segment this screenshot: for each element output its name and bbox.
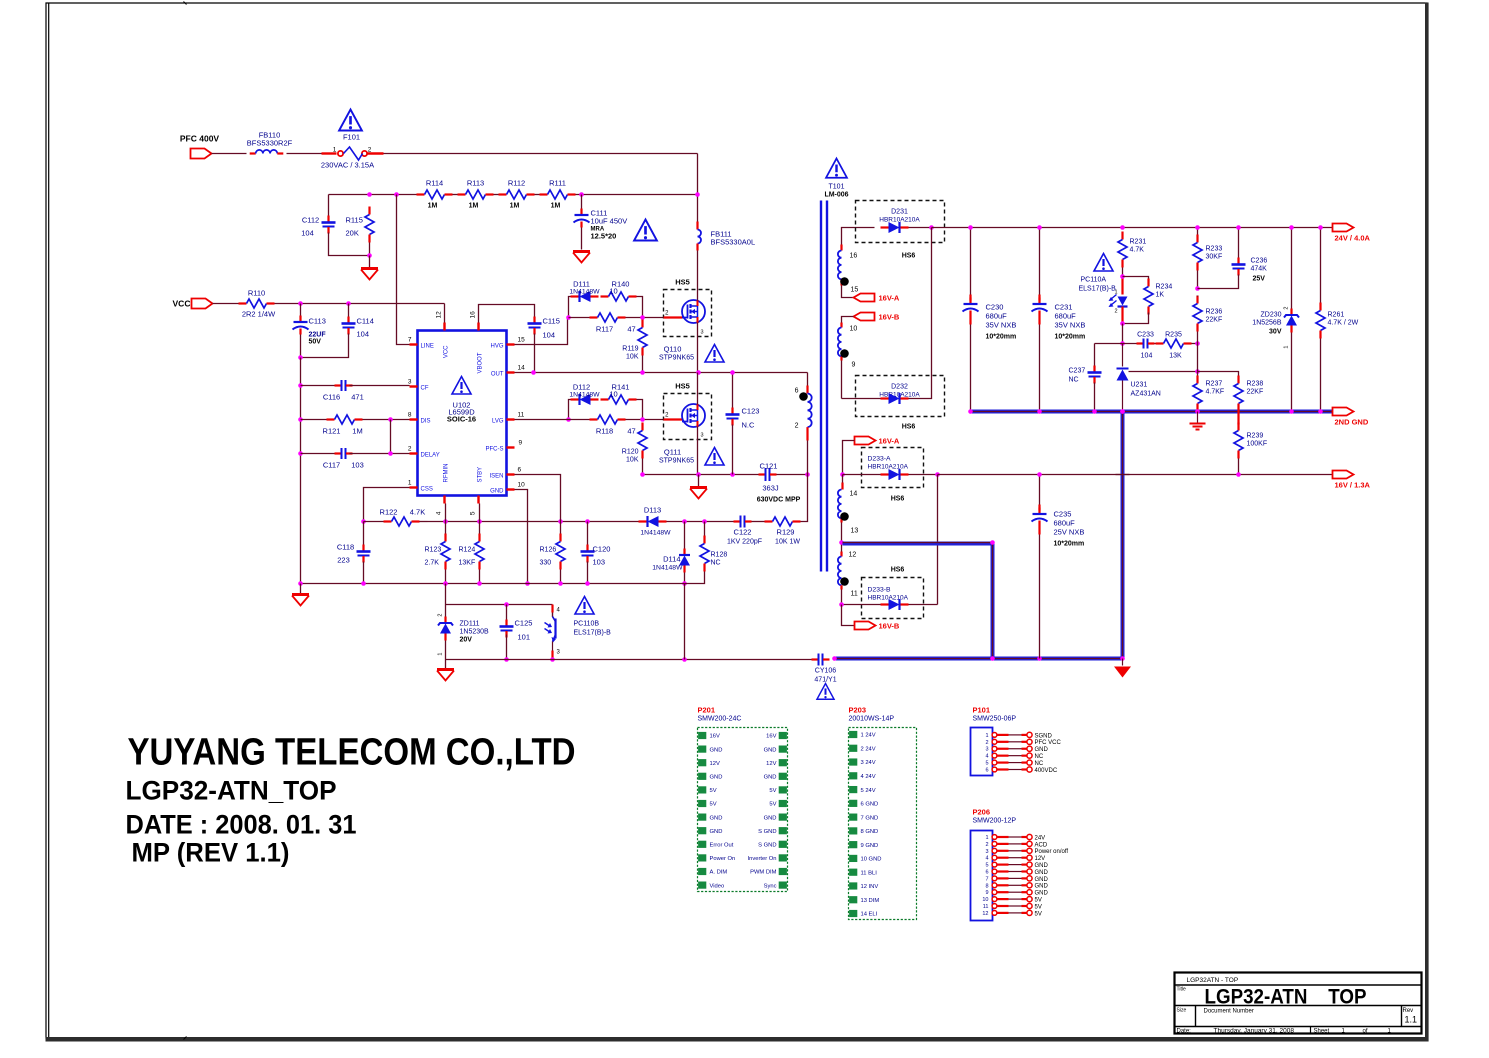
svg-text:10 GND: 10 GND xyxy=(861,857,882,863)
ground at bus riser xyxy=(1114,659,1131,678)
svg-text:7: 7 xyxy=(408,337,412,344)
svg-text:10: 10 xyxy=(850,326,858,333)
diode D233-B HBR10A210A xyxy=(842,578,938,619)
svg-text:D232: D232 xyxy=(891,384,908,391)
wire compensation row xyxy=(1095,343,1139,345)
svg-text:C121: C121 xyxy=(760,462,778,471)
junction R118 left xyxy=(566,417,571,422)
resistor R239 100KF xyxy=(1234,412,1267,475)
svg-text:1: 1 xyxy=(408,480,412,487)
svg-text:HS6: HS6 xyxy=(891,496,905,503)
junction winding11/16V-B xyxy=(839,602,844,607)
connector P203 20010WS-14P xyxy=(849,706,917,920)
svg-text:25V: 25V xyxy=(1253,276,1266,283)
resistor R261 4.7K/2W xyxy=(1316,228,1359,412)
wire GND pin10 down xyxy=(515,490,528,584)
junction C113/C114 bottom xyxy=(298,355,303,360)
junction bus corner xyxy=(990,540,995,545)
svg-text:C113: C113 xyxy=(309,317,326,326)
svg-text:13KF: 13KF xyxy=(459,560,476,567)
ground below ZD111 xyxy=(437,660,454,681)
svg-text:PC110B: PC110B xyxy=(574,621,600,628)
svg-text:C231: C231 xyxy=(1055,303,1073,312)
svg-text:3 24V: 3 24V xyxy=(861,760,876,766)
connector P101 SMW250-06P xyxy=(971,706,1062,776)
resistor R124 13KF xyxy=(459,522,485,584)
svg-text:P201: P201 xyxy=(698,706,716,715)
svg-text:YUYANG TELECOM CO.,LTD: YUYANG TELECOM CO.,LTD xyxy=(128,732,576,774)
capacitor C118 223 xyxy=(337,522,371,584)
junction snubber rail / HV line xyxy=(695,192,700,197)
optocoupler PC110A LED xyxy=(1079,277,1128,324)
svg-text:4: 4 xyxy=(985,754,988,760)
capacitor C236 474K 25V xyxy=(1198,228,1268,289)
svg-text:15: 15 xyxy=(518,337,526,344)
svg-text:474K: 474K xyxy=(1251,266,1268,273)
svg-text:SGND: SGND xyxy=(1035,733,1053,739)
junction row pin4 xyxy=(443,519,448,524)
svg-text:BFS5330R2F: BFS5330R2F xyxy=(247,139,293,148)
svg-text:11 BLI: 11 BLI xyxy=(861,870,878,876)
svg-text:D113: D113 xyxy=(644,506,661,515)
svg-text:S GND: S GND xyxy=(758,843,776,849)
svg-text:12 INV: 12 INV xyxy=(861,884,879,890)
IC U102 L6599D SOIC-16 xyxy=(408,311,525,515)
svg-text:1M: 1M xyxy=(510,203,520,210)
svg-text:3: 3 xyxy=(985,849,988,855)
svg-text:R113: R113 xyxy=(467,179,484,188)
svg-text:6: 6 xyxy=(795,388,799,395)
svg-text:10: 10 xyxy=(982,897,988,903)
resistor R113 1M xyxy=(458,179,494,210)
junction gnd rail R124 xyxy=(477,581,482,586)
phase dot secondary pin11 xyxy=(840,577,849,586)
svg-text:LGP32-ATN _ TOP: LGP32-ATN _ TOP xyxy=(1205,986,1367,1009)
svg-text:10uF 450V: 10uF 450V xyxy=(591,217,628,226)
svg-text:1.1: 1.1 xyxy=(1405,1015,1418,1025)
junction row pin5 xyxy=(477,519,482,524)
junction half-bridge Q110 xyxy=(696,370,701,375)
svg-text:RFMIN: RFMIN xyxy=(444,464,450,483)
svg-text:R231: R231 xyxy=(1130,239,1147,246)
svg-text:R235: R235 xyxy=(1165,332,1182,339)
svg-text:C120: C120 xyxy=(593,545,611,554)
svg-text:PFC-S: PFC-S xyxy=(486,447,504,453)
svg-text:10: 10 xyxy=(609,287,617,296)
node 16V-A tap arrow xyxy=(854,294,900,303)
junction bus/R261 xyxy=(1318,409,1323,414)
svg-text:DIS: DIS xyxy=(421,419,431,425)
svg-text:10K 1W: 10K 1W xyxy=(775,539,800,546)
svg-text:35V NXB: 35V NXB xyxy=(1055,321,1086,330)
svg-text:14 ELI: 14 ELI xyxy=(861,912,878,918)
svg-text:16: 16 xyxy=(850,253,858,260)
svg-text:C233: C233 xyxy=(1137,332,1154,339)
resistor R141 10 xyxy=(601,383,643,420)
junction PC110B bottom xyxy=(550,657,555,662)
svg-text:STP9NK65: STP9NK65 xyxy=(659,355,694,362)
node 16V-B output arrow xyxy=(842,605,900,631)
svg-text:NC: NC xyxy=(711,560,721,567)
junction bias rail C117 xyxy=(298,451,303,456)
svg-text:GND: GND xyxy=(1035,863,1049,869)
svg-text:4.7KF: 4.7KF xyxy=(1206,389,1225,396)
resistor R120 10K xyxy=(622,423,647,475)
zener ZD230 1N5256B 30V xyxy=(1252,228,1299,412)
junction 16V-A winding 14 xyxy=(840,472,845,477)
svg-text:4 24V: 4 24V xyxy=(861,774,876,780)
svg-text:F101: F101 xyxy=(343,133,360,142)
svg-text:5 24V: 5 24V xyxy=(861,788,876,794)
svg-text:D231: D231 xyxy=(891,209,908,216)
svg-text:D233-B: D233-B xyxy=(868,587,892,594)
capacitor C230 680uF 35V xyxy=(963,228,1017,412)
svg-text:6: 6 xyxy=(985,768,988,774)
transformer secondary winding pins 12-11 xyxy=(838,543,858,605)
diode D112 1N4148W xyxy=(569,383,601,420)
svg-text:SMW200-12P: SMW200-12P xyxy=(973,818,1017,825)
junction LED bottom xyxy=(1120,321,1125,326)
svg-text:Rev: Rev xyxy=(1403,1008,1414,1014)
junction R117/R119 xyxy=(640,315,645,320)
junction bus/R237 xyxy=(1195,409,1200,414)
svg-text:ACD: ACD xyxy=(1035,842,1048,848)
svg-text:2: 2 xyxy=(985,842,988,848)
resistor R118 47 xyxy=(515,415,664,436)
svg-text:GND: GND xyxy=(1035,747,1049,753)
junction gnd rail R126 xyxy=(558,581,563,586)
wire snubber rail xyxy=(329,194,698,196)
svg-text:16V / 1.3A: 16V / 1.3A xyxy=(1335,481,1371,490)
junction 24V/R231 xyxy=(1120,225,1125,230)
junction half-bridge C123 xyxy=(730,370,735,375)
svg-text:22KF: 22KF xyxy=(1206,317,1223,324)
svg-text:12V: 12V xyxy=(766,761,776,767)
svg-text:4: 4 xyxy=(436,511,443,515)
svg-text:GND: GND xyxy=(1035,870,1049,876)
svg-text:30KF: 30KF xyxy=(1206,254,1223,261)
svg-text:24V: 24V xyxy=(1035,835,1046,841)
wire primary ground rail xyxy=(301,583,688,585)
svg-text:12: 12 xyxy=(982,911,988,917)
wire 24V rail xyxy=(932,227,1333,229)
svg-text:R120: R120 xyxy=(622,449,639,456)
diode D111 1N4148W xyxy=(569,280,601,318)
junction bottom row D114 branch xyxy=(682,657,687,662)
svg-text:N.C: N.C xyxy=(742,421,756,430)
svg-text:S GND: S GND xyxy=(758,829,776,835)
warning symbol below CY106 xyxy=(817,684,834,700)
junction bus/U231 xyxy=(1120,409,1125,414)
svg-text:9: 9 xyxy=(519,440,523,447)
wire VBOOT pin16 to C115 xyxy=(479,305,535,323)
svg-text:6: 6 xyxy=(518,467,522,474)
wire zener top row xyxy=(446,604,553,606)
capacitor C113 22UF 50V xyxy=(293,304,327,358)
transformer primary winding pins 6-2 xyxy=(795,373,812,475)
svg-text:680uF: 680uF xyxy=(1054,519,1076,528)
svg-text:11: 11 xyxy=(983,904,989,910)
svg-text:VBOOT: VBOOT xyxy=(478,352,484,373)
wire LED to U231 cathode xyxy=(1122,324,1124,344)
svg-text:R111: R111 xyxy=(549,179,566,188)
wire R115 to ground xyxy=(369,256,371,268)
diode D114 1N4148W xyxy=(652,522,690,584)
junction R235/divider xyxy=(1195,341,1200,346)
svg-text:LVG: LVG xyxy=(492,419,504,425)
resistor R236 22KF xyxy=(1193,296,1222,344)
resistor R231 4.7K xyxy=(1118,232,1146,277)
junction half-bridge R119 xyxy=(640,370,645,375)
junction return rail C123 xyxy=(730,472,735,477)
junction bus/riser xyxy=(1120,409,1125,414)
svg-text:C118: C118 xyxy=(337,543,354,552)
resistor R114 1M xyxy=(417,179,453,210)
svg-text:R261: R261 xyxy=(1328,312,1345,319)
wire pin4 down xyxy=(445,504,447,522)
svg-text:2: 2 xyxy=(438,614,444,617)
phase dot secondary pin15 xyxy=(840,277,849,286)
svg-text:R117: R117 xyxy=(596,325,613,334)
wire pin15 to 16V-A tap xyxy=(842,286,854,298)
svg-text:12V: 12V xyxy=(1035,856,1046,862)
svg-text:ZD111: ZD111 xyxy=(460,621,480,628)
svg-text:GND: GND xyxy=(710,829,723,835)
junction R118/R120 xyxy=(640,417,645,422)
svg-text:8: 8 xyxy=(408,412,412,419)
svg-text:230VAC / 3.15A: 230VAC / 3.15A xyxy=(321,161,374,170)
warning symbol at Q111 xyxy=(705,448,724,466)
svg-text:OUT: OUT xyxy=(491,372,504,378)
junction U231 cathode node xyxy=(1120,341,1125,346)
junction row ISEN xyxy=(558,519,563,524)
svg-text:3: 3 xyxy=(408,379,412,386)
junction 24V/C236 xyxy=(1236,225,1241,230)
wire HVG pin15 row xyxy=(515,318,568,345)
svg-text:7 GND: 7 GND xyxy=(861,815,879,821)
svg-text:47: 47 xyxy=(627,427,635,436)
svg-text:9: 9 xyxy=(985,890,988,896)
svg-text:C125: C125 xyxy=(515,619,533,628)
svg-text:2 24V: 2 24V xyxy=(861,746,876,752)
junction 24V/R261 xyxy=(1318,225,1323,230)
resistor R234 1K xyxy=(1123,277,1173,324)
svg-text:A. DIM: A. DIM xyxy=(710,870,728,876)
svg-text:10*20mm: 10*20mm xyxy=(1055,334,1086,341)
junction winding 13 / GND bus xyxy=(839,540,844,545)
svg-text:CF: CF xyxy=(421,386,429,392)
svg-text:NC: NC xyxy=(1035,754,1044,760)
svg-text:5V: 5V xyxy=(1035,898,1042,904)
svg-text:24V / 4.0A: 24V / 4.0A xyxy=(1335,234,1371,243)
svg-text:Date:: Date: xyxy=(1177,1029,1192,1035)
svg-text:104: 104 xyxy=(1141,353,1153,360)
junction D114 top xyxy=(682,519,687,524)
svg-text:2: 2 xyxy=(795,423,799,430)
svg-text:1: 1 xyxy=(1114,290,1117,296)
svg-text:5V: 5V xyxy=(1035,904,1042,910)
svg-text:104: 104 xyxy=(543,331,556,340)
svg-text:R112: R112 xyxy=(508,179,525,188)
warning symbol above T101 xyxy=(826,159,847,178)
svg-text:1N5256B: 1N5256B xyxy=(1252,320,1282,327)
capacitor CY106 471/Y1 xyxy=(812,654,837,684)
capacitor C125 101 xyxy=(500,605,533,660)
capacitor C233 104 xyxy=(1137,332,1155,360)
resistor R121 1M xyxy=(301,415,410,436)
diode D232 HBR10A210A xyxy=(842,228,945,417)
svg-text:Title: Title xyxy=(1177,987,1186,993)
wire pin16 up to 24V rectifier xyxy=(842,228,875,245)
capacitor C231 680uF 35V xyxy=(1032,228,1086,412)
wire F101 to HV corner xyxy=(367,152,698,154)
svg-text:223: 223 xyxy=(337,556,350,565)
svg-text:CY106: CY106 xyxy=(815,668,837,675)
svg-text:HBR10A210A: HBR10A210A xyxy=(868,595,909,602)
wire VCC rail to U102 pin12 xyxy=(275,304,445,323)
wire secondary ground bus xyxy=(835,412,1333,659)
phase dot primary pin6 xyxy=(799,392,808,401)
svg-text:4.7K / 2W: 4.7K / 2W xyxy=(1328,320,1359,327)
svg-text:103: 103 xyxy=(593,558,606,567)
node 2ND GND output xyxy=(1333,408,1369,427)
fuse F101 230VAC/3.15A xyxy=(321,133,374,170)
wire zener bottom row to CY106 xyxy=(446,659,813,661)
svg-text:C235: C235 xyxy=(1054,510,1072,519)
svg-text:HBR10A210A: HBR10A210A xyxy=(868,464,909,471)
svg-text:5V: 5V xyxy=(710,788,717,794)
svg-text:HS5: HS5 xyxy=(675,382,690,391)
wire D113 to D114 node xyxy=(667,521,739,523)
resistor R112 1M xyxy=(499,179,535,210)
junction return rail R120 xyxy=(640,472,645,477)
svg-text:R121: R121 xyxy=(323,427,341,436)
capacitor C117 103 xyxy=(301,448,410,470)
svg-text:13K: 13K xyxy=(1169,353,1182,360)
resistor R233 30KF xyxy=(1193,228,1222,289)
resistor R140 10 xyxy=(601,280,643,318)
ground at half-bridge return xyxy=(690,475,707,499)
svg-text:D111: D111 xyxy=(573,280,590,289)
svg-text:1: 1 xyxy=(985,835,988,841)
svg-text:GND: GND xyxy=(710,747,723,753)
wire 16V rail xyxy=(938,474,1333,476)
svg-text:Inverter On: Inverter On xyxy=(748,856,777,862)
resistor R235 13K xyxy=(1155,332,1198,360)
junction bias rail R121 xyxy=(298,417,303,422)
svg-text:P101: P101 xyxy=(973,706,991,715)
svg-text:12: 12 xyxy=(849,552,857,559)
svg-text:1N4148W: 1N4148W xyxy=(652,565,683,572)
junction LED top R234 xyxy=(1120,274,1125,279)
svg-text:R124: R124 xyxy=(459,547,476,554)
ground below R115 xyxy=(361,267,378,270)
svg-text:1N4148W: 1N4148W xyxy=(569,392,600,399)
svg-text:101: 101 xyxy=(518,633,531,642)
svg-text:11: 11 xyxy=(518,412,525,419)
svg-text:AZ431AN: AZ431AN xyxy=(1131,391,1161,398)
svg-text:5V: 5V xyxy=(1035,911,1042,917)
svg-text:363J: 363J xyxy=(762,484,779,493)
svg-text:5: 5 xyxy=(470,511,477,515)
svg-text:12.5*20: 12.5*20 xyxy=(591,232,617,241)
junction gnd rail D114 xyxy=(682,581,687,586)
diode D113 1N4148W xyxy=(639,506,672,537)
warning symbol near C111 xyxy=(634,220,657,241)
junction snubber rail / C111 xyxy=(579,192,584,197)
node PFC 400V input connector xyxy=(180,134,220,159)
warning symbol at Q110 xyxy=(705,345,724,363)
svg-text:22KF: 22KF xyxy=(1247,389,1264,396)
wire line sense vertical xyxy=(397,195,410,345)
svg-text:R122: R122 xyxy=(380,508,398,517)
svg-text:4.7K: 4.7K xyxy=(1130,247,1145,254)
svg-text:GND: GND xyxy=(1035,877,1049,883)
svg-text:10K: 10K xyxy=(626,457,639,464)
svg-text:330: 330 xyxy=(540,560,552,567)
earth ground below bus at R237 xyxy=(1190,412,1206,430)
svg-text:7: 7 xyxy=(985,876,988,882)
svg-text:GND: GND xyxy=(710,815,723,821)
junction transformer pin2 node xyxy=(805,472,810,477)
ferrite bead FB110 xyxy=(247,131,293,154)
svg-text:104: 104 xyxy=(357,330,370,339)
svg-text:11: 11 xyxy=(851,591,858,598)
wire C121 to transformer pin2 xyxy=(777,474,808,476)
svg-text:R129: R129 xyxy=(777,528,795,537)
svg-text:1: 1 xyxy=(985,733,988,739)
node VCC input connector xyxy=(173,299,213,309)
wire 16V-A to D233-A row xyxy=(843,441,855,475)
junction D233 outputs xyxy=(935,472,940,477)
svg-text:16V: 16V xyxy=(766,734,776,740)
svg-text:12V: 12V xyxy=(710,761,720,767)
junction R128 top xyxy=(702,519,707,524)
svg-text:2ND GND: 2ND GND xyxy=(1335,418,1369,427)
svg-text:Error Out: Error Out xyxy=(710,843,734,849)
resistor R110 2R2 1/4W xyxy=(239,289,277,319)
svg-text:1: 1 xyxy=(1284,346,1290,349)
transformer secondary winding pins 14-13 xyxy=(838,475,858,543)
junction 24V/C231 xyxy=(1037,225,1042,230)
svg-text:1N4148W: 1N4148W xyxy=(640,530,671,537)
svg-text:ELS17(B)-B: ELS17(B)-B xyxy=(1079,286,1117,293)
wire Q111 drain xyxy=(697,373,699,405)
optocoupler PC110B transistor xyxy=(545,605,612,660)
transformer T101 LM-006 labels xyxy=(824,184,848,199)
junction 16V/C235 xyxy=(1037,472,1042,477)
svg-text:ISEN: ISEN xyxy=(489,474,503,480)
svg-text:1: 1 xyxy=(333,147,337,154)
transformer secondary winding pins 10-9 xyxy=(838,317,857,399)
svg-text:16V-A: 16V-A xyxy=(879,437,900,446)
svg-text:C237: C237 xyxy=(1069,368,1086,375)
transformer core xyxy=(821,201,827,572)
junction gnd rail left xyxy=(298,581,303,586)
capacitor C122 1KV 220pF xyxy=(727,516,762,546)
junction gnd rail C120 xyxy=(585,581,590,586)
wire OUT pin14 half-bridge row xyxy=(515,372,808,374)
svg-text:680uF: 680uF xyxy=(1055,312,1077,321)
svg-text:3: 3 xyxy=(701,433,704,439)
wire primary return rail xyxy=(643,474,762,476)
svg-text:16V-A: 16V-A xyxy=(879,294,900,303)
resistor R238 22KF xyxy=(1198,372,1264,412)
svg-text:2: 2 xyxy=(985,740,988,746)
svg-text:12: 12 xyxy=(436,311,443,319)
node 16V-A output arrow xyxy=(855,437,900,446)
wire VCC to R110 xyxy=(213,303,239,305)
